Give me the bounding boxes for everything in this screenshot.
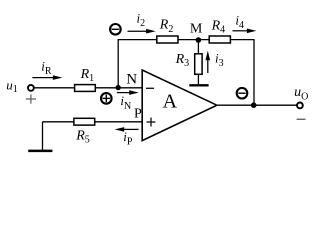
svg-text:M: M — [190, 22, 203, 37]
svg-text:P: P — [134, 107, 142, 122]
svg-text:A: A — [163, 90, 178, 112]
svg-text:N: N — [126, 71, 137, 87]
